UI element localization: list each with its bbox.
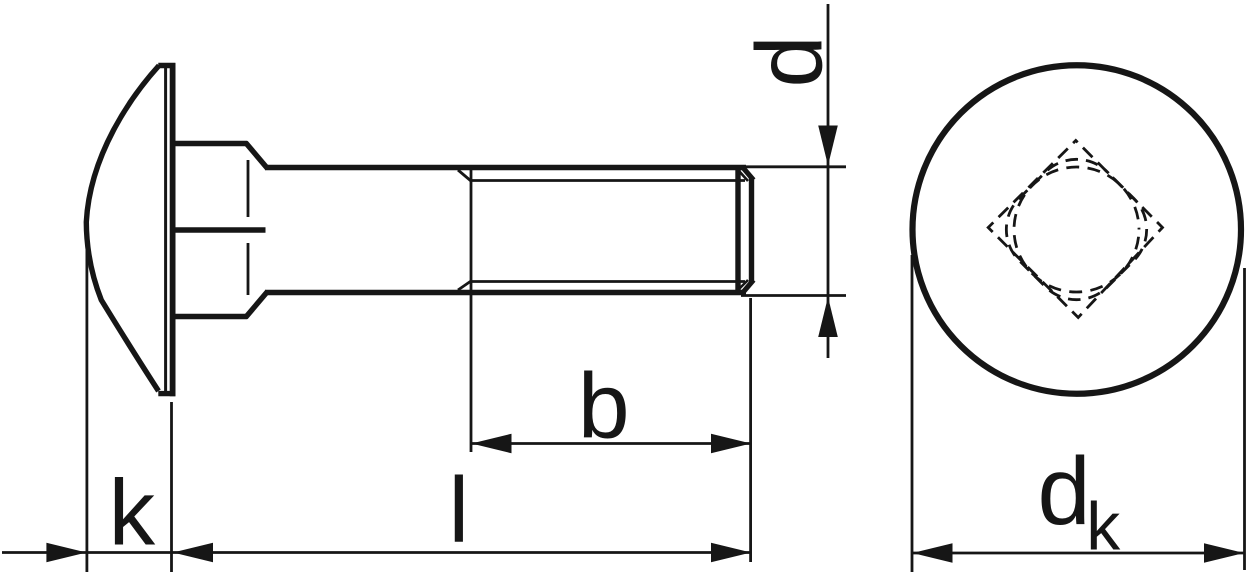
thread minor diameter bottom	[471, 280, 745, 283]
bolt head dome arc	[86, 66, 159, 392]
head rim top edge	[158, 63, 175, 68]
head rim inner line	[164, 68, 167, 391]
head front view outline circle	[913, 65, 1242, 394]
dimension dk: arrow left	[913, 543, 953, 563]
thread minor diameter top	[471, 179, 745, 182]
square neck bottom chamfer	[246, 292, 268, 318]
dimension b: arrow left	[472, 434, 512, 454]
thread runout diagonal bottom	[458, 281, 471, 290]
shank bottom outline	[265, 290, 746, 296]
svg-text:b: b	[578, 354, 630, 458]
dimension d: extension line top	[741, 165, 846, 168]
thread end chamfer bottom diagonal	[742, 280, 754, 294]
dimension l: arrow left	[173, 543, 213, 563]
hidden neck profile with corner fillets (dashed rounded square)	[988, 141, 1165, 318]
thread end chamfer top diagonal	[742, 167, 754, 181]
head bearing face	[170, 63, 176, 396]
square neck bottom edge	[175, 314, 247, 319]
hidden square neck (dashed diamond)	[988, 141, 1162, 318]
thread end inner diagonal bottom	[739, 280, 748, 289]
square neck top edge	[175, 141, 247, 146]
svg-text:d: d	[736, 35, 841, 87]
dimension l: arrow right	[711, 543, 751, 563]
dimension dk: extension line right	[1243, 268, 1246, 570]
thread start line / b extension	[470, 169, 473, 452]
dimension d: arrow bottom	[818, 297, 838, 337]
square neck top chamfer	[246, 143, 268, 169]
thread runout diagonal top	[458, 170, 471, 181]
svg-text:l: l	[449, 458, 470, 562]
svg-text:k: k	[109, 461, 156, 565]
b extension right / l extension right	[749, 298, 752, 562]
thread end inner diagonal top	[739, 171, 748, 181]
dimension d: arrow top	[818, 126, 838, 166]
dimension k and l: shared dimension line	[2, 551, 752, 554]
dimension d: dimension line	[827, 4, 830, 358]
neck corner radius mark upper	[247, 160, 250, 217]
dimension b: arrow right	[711, 434, 751, 454]
svg-text:d: d	[1038, 439, 1091, 545]
hidden shank circle (dashed)	[1014, 167, 1139, 292]
shank top outline	[265, 165, 746, 171]
dimension b: dimension line	[471, 442, 752, 445]
svg-text:k: k	[1086, 489, 1121, 565]
k extension right (head face)	[170, 402, 173, 572]
head rim bottom edge	[158, 391, 175, 396]
k extension left (dome tangent)	[86, 250, 89, 572]
neck corner radius mark lower	[247, 243, 250, 295]
dimension dk: dimension line	[912, 552, 1245, 555]
dimension k: arrow left outside	[46, 543, 86, 563]
square neck corner edge (middle)	[175, 227, 266, 232]
dimension dk: extension line left	[911, 255, 914, 572]
dimension dk: arrow right	[1204, 543, 1244, 563]
thread end chamfer start	[735, 168, 740, 293]
dimension d: extension line bottom	[741, 294, 846, 297]
thread end face	[749, 178, 754, 283]
